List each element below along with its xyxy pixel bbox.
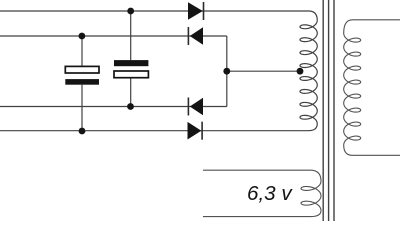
svg-text:6,3 v: 6,3 v xyxy=(247,182,293,205)
diode D3 (pointing left) xyxy=(190,98,203,116)
transformer core line 3 xyxy=(333,0,335,221)
junction dot W1/C2 xyxy=(127,8,134,15)
capacitor C2 leads xyxy=(130,11,132,107)
capacitor C2 bottom hollow plate xyxy=(114,71,148,78)
diode D4 (bottom, pointing right) xyxy=(188,122,202,140)
transformer core line 2 xyxy=(328,0,330,221)
junction dot W4/C1 xyxy=(79,128,86,135)
transformer core line 1 xyxy=(322,0,324,221)
diode D2 (pointing left) xyxy=(190,27,203,45)
wire W3 third AC line xyxy=(0,106,227,108)
transformer secondary winding xyxy=(344,20,400,156)
transformer 6.3V filament winding xyxy=(203,170,321,216)
junction dot W2/C1 xyxy=(79,33,86,40)
wire W1 top AC line into transformer primary winding xyxy=(0,11,317,131)
wire W2 second AC line xyxy=(0,35,227,37)
wire vertical bus joining D2 and D3 xyxy=(226,36,228,107)
capacitor C1 bottom solid plate xyxy=(65,79,99,85)
capacitor C1 top hollow plate xyxy=(65,66,99,73)
capacitor C2 top solid plate xyxy=(114,60,148,66)
diode D1 (top, pointing right) xyxy=(188,2,203,20)
capacitor C1 leads xyxy=(81,36,83,131)
junction dot bus/center tap xyxy=(223,68,230,75)
junction dot W3/C2 xyxy=(127,103,134,110)
wire W4 bottom AC line xyxy=(0,130,203,132)
junction dot at primary winding center tap xyxy=(297,68,304,75)
wire center tap branch xyxy=(227,70,300,72)
